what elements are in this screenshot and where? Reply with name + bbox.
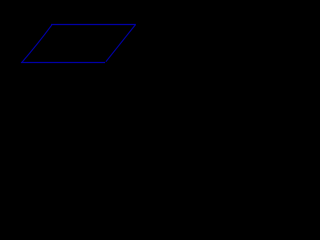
wireframe plane: top edge [51,24,136,26]
background [0,0,163,106]
wireframe plane: left edge [22,25,52,63]
wireframe plane: bottom edge [21,62,105,64]
wireframe plane: right edge [106,25,136,62]
